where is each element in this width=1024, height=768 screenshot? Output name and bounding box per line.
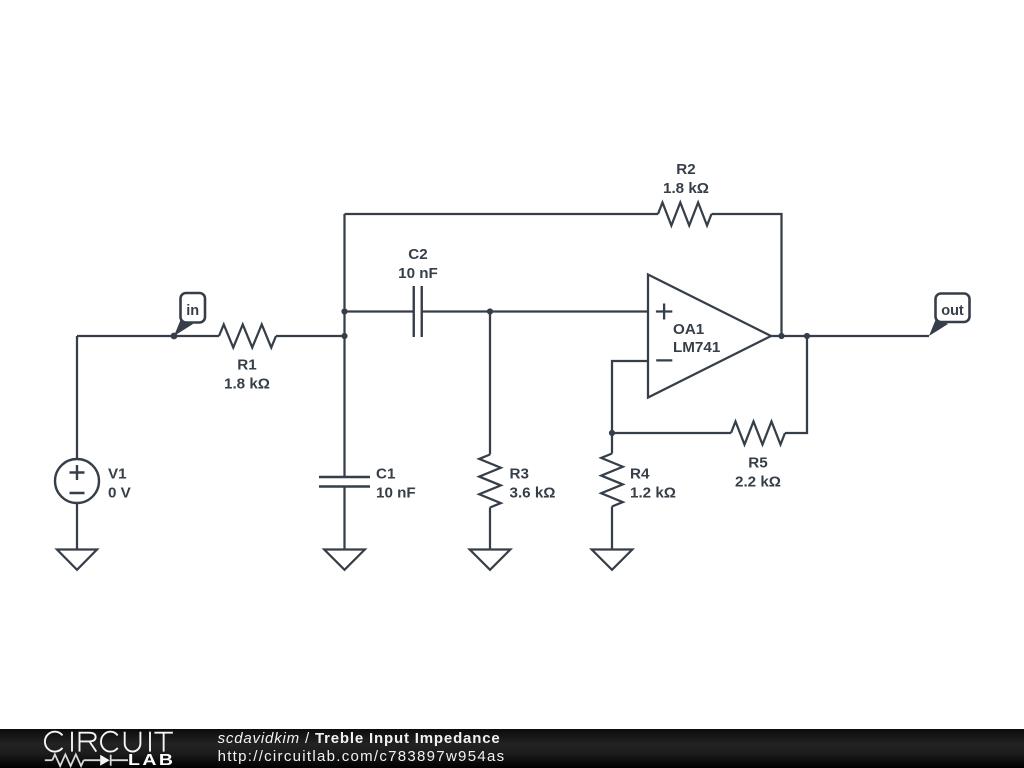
wire V1 bottom lead [76, 503, 78, 550]
logo diode cathode [110, 755, 112, 766]
resistor R1 [219, 325, 276, 348]
node F (R5/output junction) [804, 333, 810, 339]
wire R3 bottom lead [489, 508, 491, 550]
CircuitLab logo wordmark CIRCUIT + resistor-diode glyph [0, 726, 200, 768]
svg-text:V1: V1 [108, 466, 127, 483]
node D (R4/R5 junction) [609, 430, 615, 436]
wire R4 top lead [611, 433, 613, 454]
svg-text:1.2 kΩ: 1.2 kΩ [630, 485, 676, 502]
capacitor C2 [414, 286, 422, 337]
svg-text:R4: R4 [630, 466, 650, 483]
svg-text:C2: C2 [408, 246, 427, 263]
wire output [771, 335, 929, 337]
wire C2 left lead [345, 310, 414, 312]
wire C1 bottom lead [343, 487, 345, 550]
op-amp minus input marker [656, 359, 672, 361]
op-amp plus input marker [656, 304, 672, 320]
svg-text:R3: R3 [510, 466, 529, 483]
ground (R3) [470, 550, 511, 570]
wire R5 right lead up to output [785, 336, 807, 433]
svg-text:out: out [941, 303, 964, 319]
ground (C1) [324, 550, 365, 570]
svg-text:1.8 kΩ: 1.8 kΩ [663, 180, 709, 197]
footer title line 1 [218, 731, 501, 746]
svg-text:OA1: OA1 [673, 321, 705, 338]
svg-text:2.2 kΩ: 2.2 kΩ [735, 474, 781, 491]
wire C2 right lead to node C [422, 310, 490, 312]
wire R5 left lead [612, 432, 731, 434]
ground (V1) [57, 550, 97, 570]
svg-text:R1: R1 [237, 357, 257, 374]
capacitor C1 [319, 477, 370, 487]
wire R4 bottom lead [611, 507, 613, 550]
flag out [929, 294, 970, 337]
wire feedback top right + vertical down to output [712, 214, 782, 336]
wire R3 top lead [489, 312, 491, 455]
svg-text:10 nF: 10 nF [376, 485, 416, 502]
wire op-amp inverting input [612, 361, 648, 433]
footer bar [0, 729, 1024, 768]
logo letter R [79, 732, 97, 752]
wire input net left horizontal [77, 335, 219, 337]
logo letter C [101, 732, 118, 752]
node in [171, 333, 178, 340]
logo resistor zigzag [52, 754, 83, 766]
resistor R5 [731, 422, 785, 445]
logo wire [84, 759, 101, 761]
svg-text:R5: R5 [748, 455, 768, 472]
logo letter T [154, 733, 173, 752]
wire feedback top left segment [345, 213, 659, 215]
CircuitLab logo LAB [128, 753, 175, 768]
voltage source V1 [55, 459, 99, 503]
resistor R3 [479, 455, 501, 508]
svg-text:10 nF: 10 nF [398, 265, 438, 282]
op-amp OA1 [648, 275, 771, 398]
logo letter I [149, 732, 151, 752]
node C (C2/R3 junction) [487, 308, 493, 314]
wire R1 to node A [276, 335, 345, 337]
svg-text:0 V: 0 V [108, 485, 132, 502]
svg-text:in: in [186, 303, 199, 319]
node E (feedback/output junction) [778, 333, 784, 339]
svg-text:C1: C1 [376, 466, 396, 483]
flag in [174, 293, 205, 336]
node A (R1/C1 junction) [341, 333, 347, 339]
wire V1 top lead [76, 336, 78, 459]
svg-text:R2: R2 [676, 161, 695, 178]
logo letter U [125, 732, 141, 752]
svg-text:1.8 kΩ: 1.8 kΩ [224, 376, 270, 393]
svg-text:LM741: LM741 [673, 339, 721, 356]
resistor R2 [658, 203, 712, 226]
ground (R4) [592, 550, 633, 570]
wire feedback vertical left [343, 214, 345, 336]
wire node C to op-amp plus input [490, 310, 648, 312]
node B (C2 left) [341, 308, 347, 314]
footer URL line 2 [218, 749, 506, 764]
logo resistor lead [45, 759, 53, 761]
logo letter C [45, 732, 63, 752]
resistor R4 [601, 454, 623, 507]
wire C1 top lead [343, 336, 345, 477]
logo diode [100, 755, 110, 766]
logo letter I [71, 732, 73, 752]
logo wire to LAB [111, 759, 128, 761]
svg-text:3.6 kΩ: 3.6 kΩ [510, 485, 556, 502]
